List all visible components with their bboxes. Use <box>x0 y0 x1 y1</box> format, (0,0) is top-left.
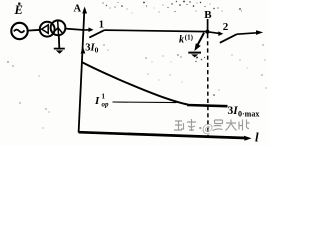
breaker 2 blade <box>220 34 237 43</box>
ground (transformer neutral) <box>54 49 65 54</box>
label Iop1 <box>94 93 109 109</box>
label k(1) <box>179 34 194 46</box>
watermark zhihu <box>174 119 250 135</box>
svg-text:op: op <box>102 101 110 109</box>
wire line A-B <box>105 30 208 32</box>
svg-text:E: E <box>14 3 23 17</box>
svg-text:1: 1 <box>102 93 106 101</box>
y-axis arrowhead 3I0 <box>81 47 86 54</box>
bus B solid segment <box>207 19 209 34</box>
label 3I0max <box>228 105 260 119</box>
generator G source circle <box>11 23 27 39</box>
svg-text:l: l <box>255 130 259 145</box>
svg-text:(1): (1) <box>185 34 194 42</box>
svg-text:I: I <box>94 95 100 107</box>
fault arrow k1 <box>194 33 204 51</box>
label 2 <box>223 21 229 33</box>
wire transformer to bus A <box>65 29 84 30</box>
svg-text:A: A <box>74 4 82 15</box>
breaker 1 blade <box>89 30 104 37</box>
label B <box>204 9 212 21</box>
svg-text:@: @ <box>202 121 213 135</box>
svg-text:B: B <box>204 9 212 21</box>
scan noise speckles <box>7 1 266 129</box>
label 1 <box>99 19 104 30</box>
breaker 2 contact arrow <box>208 31 224 36</box>
svg-text:1: 1 <box>99 19 104 30</box>
svg-text:2: 2 <box>223 21 229 33</box>
wire with arrow to load <box>237 30 263 35</box>
Iop pickup current line <box>113 101 177 104</box>
label A <box>74 4 82 15</box>
wire generator to transformer <box>28 29 41 32</box>
node junction at B <box>205 30 209 34</box>
label E (EMF source) <box>14 3 23 17</box>
breaker 1 contact arrow <box>84 27 94 32</box>
svg-text:3I: 3I <box>228 105 239 117</box>
ground (fault point) <box>188 53 201 58</box>
bus B dashed drop line <box>207 34 209 137</box>
x-axis (distance l) <box>79 132 252 141</box>
svg-text:0·max: 0·max <box>238 110 259 119</box>
transformer T1 (wye circle) <box>51 20 66 35</box>
label 3I0 <box>85 43 98 55</box>
neutral lead wire <box>58 35 61 49</box>
svg-text:k: k <box>179 35 184 46</box>
bus A / graph y-axis <box>79 7 87 133</box>
transformer T1 (delta circle) <box>40 22 55 37</box>
curve flat tail 3I0max level <box>187 105 228 106</box>
curve 3I0 vs distance <box>82 62 188 105</box>
label l <box>255 130 259 145</box>
